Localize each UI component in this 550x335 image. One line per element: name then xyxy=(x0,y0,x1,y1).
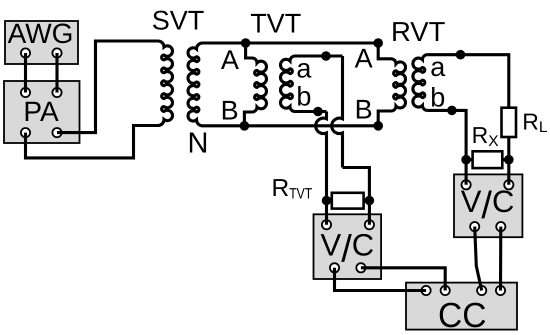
resistor R_L body xyxy=(502,108,517,137)
instrument box V/C (right, RVT meter) xyxy=(454,174,522,237)
wire RVT sec b to V/C right top1 xyxy=(427,110,466,184)
wire AWG-2 to PA-in2 xyxy=(55,53,58,93)
wire VCL bot2 to CC-2 xyxy=(361,268,445,291)
svg-text:SVT: SVT xyxy=(152,5,205,35)
node a (TVT secondary top) xyxy=(321,51,331,61)
terminal AWG-1 xyxy=(21,48,30,57)
terminal AWG-2 xyxy=(52,48,61,57)
terminal VCR-bot1 xyxy=(470,222,479,231)
wire AWG-1 to PA-in1 xyxy=(24,53,27,93)
terminal VCL-top2 xyxy=(365,220,374,229)
node a2 (RVT secondary top) xyxy=(456,50,466,60)
svg-text:A: A xyxy=(221,45,239,75)
terminal PA-out1 xyxy=(21,128,30,137)
node R_X left xyxy=(461,155,471,165)
wire VCR bot2 to CC-4 xyxy=(499,227,502,291)
wire VCR bot1 to CC-3 xyxy=(475,227,482,291)
coil SVT secondary winding xyxy=(188,43,202,126)
node A2 (RVT primary tap) xyxy=(373,38,383,48)
wire R_X lead xyxy=(466,158,509,161)
svg-text:B: B xyxy=(355,95,373,125)
resistor R_X body xyxy=(473,151,503,168)
terminal PA-out2 xyxy=(52,128,61,137)
svg-text:CC: CC xyxy=(438,296,487,335)
coil RVT primary winding xyxy=(391,59,406,111)
node B2 (RVT primary bottom) xyxy=(373,121,383,131)
terminal PA-in2 xyxy=(52,88,61,97)
svg-text:TVT: TVT xyxy=(250,8,301,38)
svg-text:PA: PA xyxy=(23,96,59,127)
terminal VCR-top2 xyxy=(504,180,513,189)
terminal CC-4 xyxy=(496,286,505,295)
coil TVT primary winding xyxy=(252,58,266,112)
svg-text:RL: RL xyxy=(522,109,548,137)
node b (TVT secondary bottom) xyxy=(313,107,323,117)
wire N bus (SVT sec bottom to RVT B) xyxy=(203,124,379,127)
svg-text:a: a xyxy=(430,52,446,82)
wire RVT sec a to R_L and V/C right top2 xyxy=(427,55,508,185)
node R_TVT left xyxy=(322,196,332,206)
node B (TVT primary bottom) xyxy=(240,121,250,131)
node A (TVT primary tap) xyxy=(241,38,251,48)
wire node A2 to RVT primary top xyxy=(378,43,391,59)
coil RVT secondary winding xyxy=(413,55,428,111)
wire TVT a drop with hop over N bus xyxy=(332,56,343,168)
wire TVT primary bottom to node B xyxy=(244,112,252,126)
resistor R_TVT body xyxy=(332,193,364,209)
instrument box AWG xyxy=(5,21,78,64)
terminal CC-2 xyxy=(441,286,450,295)
svg-text:A: A xyxy=(355,44,373,74)
terminal VCL-bot2 xyxy=(356,263,365,272)
svg-text:B: B xyxy=(221,96,239,126)
terminal PA-in1 xyxy=(21,88,30,97)
svg-text:N: N xyxy=(188,128,209,160)
wire TVT a to R_TVT right lead xyxy=(343,168,370,225)
coil SVT primary winding xyxy=(158,41,172,125)
terminal VCR-top1 xyxy=(462,180,471,189)
terminal VCL-top1 xyxy=(322,220,331,229)
node R_X right xyxy=(504,155,514,165)
wire TVT sec b stub xyxy=(295,110,327,113)
wire PA-out1 to SVT primary bottom xyxy=(26,126,159,158)
svg-text:AWG: AWG xyxy=(8,18,74,49)
wire top bus A (SVT sec top to RVT A) xyxy=(203,41,379,44)
svg-text:b: b xyxy=(296,82,311,112)
terminal CC-1 xyxy=(422,286,431,295)
wire R_TVT lead xyxy=(327,199,370,202)
instrument box V/C (left, TVT meter) xyxy=(314,214,382,279)
wire TVT b drop with hop over N bus to V/C xyxy=(316,112,327,225)
coil TVT secondary winding xyxy=(280,56,295,112)
svg-text:RX: RX xyxy=(472,122,500,150)
instrument box CC xyxy=(406,283,517,330)
terminal VCR-bot2 xyxy=(496,222,505,231)
svg-text:b: b xyxy=(430,83,445,113)
wire TVT sec a to corner xyxy=(295,54,343,57)
svg-text:RVT: RVT xyxy=(391,16,446,47)
wire RVT primary bottom to node B2 xyxy=(378,111,391,126)
instrument box PA xyxy=(4,81,80,143)
terminal VCL-bot1 xyxy=(330,263,339,272)
terminal CC-3 xyxy=(477,286,486,295)
wire PA-out2 to SVT primary top xyxy=(57,41,158,133)
wire node A to TVT primary top xyxy=(246,43,252,58)
svg-text:RTVT: RTVT xyxy=(272,175,313,203)
node R_TVT right xyxy=(365,196,375,206)
svg-text:a: a xyxy=(296,54,312,84)
wire VCL bot1 to CC-1 xyxy=(335,268,427,291)
node b2 (RVT secondary bottom) xyxy=(447,106,457,116)
